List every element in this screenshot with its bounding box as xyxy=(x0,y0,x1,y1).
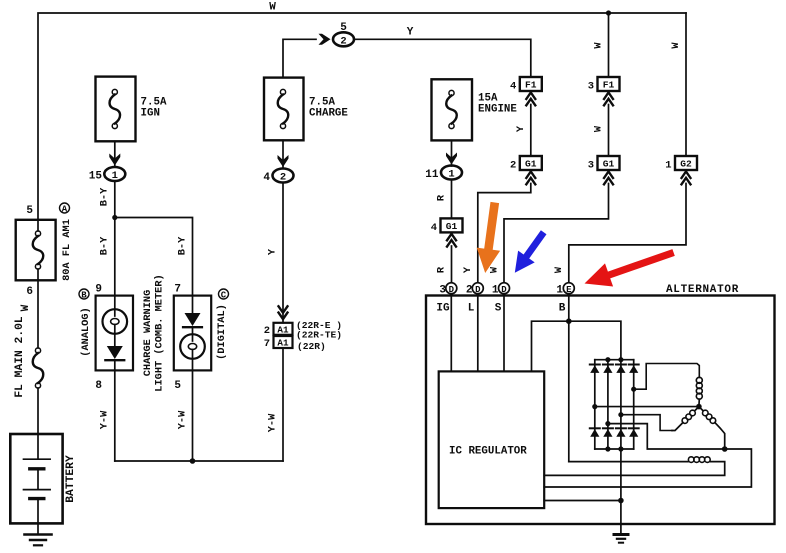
battery cell plates xyxy=(24,458,51,460)
connector oval 1 pin 11 xyxy=(441,166,462,180)
wire neutral rail to column 1 xyxy=(595,406,699,408)
svg-text:4: 4 xyxy=(510,81,516,93)
wire field coil to regulator F xyxy=(544,462,725,476)
connector chevrons F1-3 xyxy=(604,93,613,106)
svg-text:Y: Y xyxy=(462,266,474,273)
ground battery xyxy=(25,533,52,536)
wire phase 1 to coil xyxy=(634,364,700,390)
svg-text:W: W xyxy=(593,125,605,132)
IC regulator box xyxy=(439,371,545,508)
svg-text:(DIGITAL): (DIGITAL) xyxy=(216,304,228,360)
wire regulator ground xyxy=(544,500,621,502)
diode D1 bottom xyxy=(590,427,600,429)
svg-text:4: 4 xyxy=(263,172,270,184)
diode D4 bottom xyxy=(629,427,639,429)
junction connector F1 pin 4 xyxy=(520,77,542,91)
svg-text:2: 2 xyxy=(510,160,516,172)
svg-text:8: 8 xyxy=(95,380,102,392)
wire S into regulator xyxy=(503,294,505,372)
connector chevrons G1-4 xyxy=(447,234,456,247)
F1 G1 COLUMN S xyxy=(488,13,619,283)
svg-text:CHARGE WARNING: CHARGE WARNING xyxy=(142,290,154,377)
svg-text:(22R-TE): (22R-TE) xyxy=(296,330,342,341)
svg-text:B-Y: B-Y xyxy=(99,236,111,255)
connector arrow male xyxy=(109,154,120,166)
STATOR WINDINGS xyxy=(544,364,751,488)
CHARGE FUSE COLUMN xyxy=(263,22,530,461)
svg-text:Y-W: Y-W xyxy=(177,410,189,429)
wire B down to field coil xyxy=(568,294,570,462)
diode D3 bottom xyxy=(616,427,626,429)
pointer arrow orange xyxy=(477,202,500,273)
svg-text:1: 1 xyxy=(665,160,671,172)
svg-text:R: R xyxy=(436,194,448,201)
connector oval 2 pin 4 xyxy=(273,169,294,183)
svg-text:W: W xyxy=(269,2,276,14)
svg-text:W: W xyxy=(670,42,682,49)
ALTERNATOR UNIT xyxy=(426,284,775,524)
svg-text:IG: IG xyxy=(436,303,450,315)
svg-text:Y: Y xyxy=(267,248,279,255)
fuse 7.5A IGN box xyxy=(96,77,136,142)
svg-text:F1: F1 xyxy=(603,80,615,91)
node ground junction xyxy=(618,498,624,504)
svg-text:W: W xyxy=(593,42,605,49)
wire phase sense from column 2 xyxy=(544,424,751,487)
wire Y to F1 column xyxy=(354,39,531,77)
wire L into regulator xyxy=(477,294,479,372)
wire top bus to G2 xyxy=(685,13,687,156)
svg-text:L: L xyxy=(468,303,475,315)
svg-text:W: W xyxy=(553,266,565,273)
svg-text:ENGINE: ENGINE xyxy=(478,104,517,116)
node rail junction xyxy=(190,458,196,464)
junction connector F1 pin 3 xyxy=(598,77,620,91)
connector chevrons G1-3 xyxy=(604,172,613,185)
lamp analog xyxy=(114,296,116,316)
svg-text:G1: G1 xyxy=(446,221,458,232)
diode analog xyxy=(107,346,123,359)
junction connector A1 pin 2 xyxy=(274,323,293,335)
wire jog to terminal L xyxy=(478,184,531,283)
CHARGE WARNING LIGHT xyxy=(79,274,283,464)
RECTIFIER BRIDGE xyxy=(590,357,639,452)
fuse 15A ENGINE element xyxy=(449,90,454,95)
svg-text:5: 5 xyxy=(174,380,181,392)
svg-text:15: 15 xyxy=(89,171,103,183)
wire bridge negative to ground xyxy=(620,449,622,535)
junction connector A1 pin 7 xyxy=(274,336,293,348)
wire top bus to F1-3 xyxy=(608,13,610,77)
fuse 80A FL AM1 box xyxy=(16,220,56,280)
fuse 7.5A IGN element xyxy=(112,89,117,94)
svg-text:C: C xyxy=(221,290,227,300)
fuse 15A ENGINE box xyxy=(432,79,473,140)
svg-text:W: W xyxy=(488,266,500,273)
svg-text:11: 11 xyxy=(425,169,439,181)
wire Y to A1 junction xyxy=(282,183,284,323)
wire bridge column 3 xyxy=(620,360,622,449)
diode D2 bottom xyxy=(603,427,613,429)
svg-text:G1: G1 xyxy=(525,159,537,170)
fuse 7.5A CHARGE element xyxy=(280,89,285,94)
svg-text:7: 7 xyxy=(264,338,270,350)
connector chevrons female A1 xyxy=(279,306,288,319)
wire B to field coil xyxy=(569,461,688,463)
svg-text:3: 3 xyxy=(588,160,594,172)
F1 G1 COLUMN L xyxy=(462,77,542,283)
node top junction xyxy=(606,10,611,15)
G2 COLUMN B xyxy=(553,13,697,283)
svg-text:A: A xyxy=(62,204,68,214)
diode digital xyxy=(192,296,194,313)
pointer arrow blue xyxy=(515,230,547,273)
wire jog to terminal B xyxy=(569,184,686,283)
coil rotor field xyxy=(688,457,694,463)
svg-text:G1: G1 xyxy=(603,159,615,170)
svg-text:7: 7 xyxy=(174,284,181,296)
battery box xyxy=(10,434,62,523)
junction connector G2 pin 1 xyxy=(675,156,697,170)
wire charge fuse to connector xyxy=(282,140,284,168)
connector chevrons G1-2 xyxy=(526,172,535,185)
coil stator phase 2 xyxy=(695,407,699,411)
wire fuse A to FL MAIN xyxy=(37,269,39,348)
FIELD COIL AND GROUND xyxy=(544,449,725,543)
wire W top horizontal bus xyxy=(38,13,686,231)
wire IG into regulator xyxy=(450,294,452,372)
svg-text:(ANALOG): (ANALOG) xyxy=(80,307,92,356)
node C circle xyxy=(219,289,229,299)
connector arrow male xyxy=(278,155,289,167)
wire charge fuse top to oval 2 xyxy=(283,39,316,77)
svg-text:3: 3 xyxy=(588,81,594,93)
fusible link FL MAIN 2.0L element xyxy=(35,348,40,353)
coil stator phase 1 xyxy=(696,377,702,383)
wire jog to terminal S xyxy=(504,184,609,283)
wire FL MAIN to battery xyxy=(37,388,39,459)
wire branch to digital lamp xyxy=(115,218,193,296)
svg-text:Y-W: Y-W xyxy=(99,410,111,429)
svg-text:B: B xyxy=(81,290,87,300)
svg-text:G2: G2 xyxy=(680,159,692,170)
coil stator phase 3 xyxy=(699,407,703,411)
svg-text:CHARGE: CHARGE xyxy=(309,108,348,120)
wire Y between F1 and G1 xyxy=(530,105,532,157)
svg-text:9: 9 xyxy=(95,284,102,296)
wire digital lamp down xyxy=(192,370,194,461)
svg-text:B: B xyxy=(559,303,566,315)
wire IGN fuse to connector xyxy=(114,141,116,167)
svg-text:F1: F1 xyxy=(525,80,537,91)
wire bridge column 1 xyxy=(594,360,596,449)
LEFT BATTERY FEED COLUMN xyxy=(10,2,276,546)
svg-text:A1: A1 xyxy=(277,338,289,349)
svg-text:80A FL AM1: 80A FL AM1 xyxy=(61,219,73,281)
node A circle xyxy=(60,203,70,213)
diode D4 top xyxy=(629,364,639,366)
svg-text:5: 5 xyxy=(26,205,33,217)
svg-text:IC REGULATOR: IC REGULATOR xyxy=(449,446,527,458)
wire R to terminal IG xyxy=(451,246,453,283)
connector oval 2 pin 5 xyxy=(333,32,354,46)
wire regulator B sense to rectifier xyxy=(532,321,621,371)
ENGINE FUSE COLUMN xyxy=(425,79,517,282)
wire bridge negative rail xyxy=(595,448,634,450)
svg-text:FL MAIN 2.0L: FL MAIN 2.0L xyxy=(14,316,26,398)
svg-text:B-Y: B-Y xyxy=(99,187,111,206)
wire bridge column 4 xyxy=(633,360,635,449)
IGN FUSE COLUMN xyxy=(89,77,193,296)
svg-text:Y-W: Y-W xyxy=(267,413,279,432)
svg-text:A1: A1 xyxy=(277,324,289,335)
connector arrow male xyxy=(446,153,457,165)
svg-text:W: W xyxy=(20,304,32,311)
junction connector G1 pin 2 xyxy=(520,156,542,170)
connector chevrons F1-4 xyxy=(526,93,535,106)
svg-text:IGN: IGN xyxy=(141,108,160,120)
fuse 80A FL AM1 element xyxy=(35,231,40,236)
junction connector G1 pin 4 xyxy=(441,218,463,232)
svg-text:B-Y: B-Y xyxy=(177,236,189,255)
wire B-Y to warning lamps xyxy=(114,181,116,296)
lamp digital xyxy=(192,327,194,341)
wire engine fuse to connector xyxy=(451,140,453,166)
digital lamp box xyxy=(174,296,211,371)
wire bottom rail lamps xyxy=(115,460,283,462)
diode D3 top xyxy=(616,364,626,366)
ALTERNATOR TERMINALS xyxy=(439,283,574,297)
svg-text:LIGHT (COMB. METER): LIGHT (COMB. METER) xyxy=(154,274,166,391)
svg-text:R: R xyxy=(436,266,448,273)
analog lamp box xyxy=(96,296,133,371)
pointer arrow red xyxy=(585,249,675,286)
svg-text:(22R): (22R) xyxy=(297,341,326,352)
wire R to G1 xyxy=(451,180,453,219)
POINTER ARROWS xyxy=(477,202,675,287)
node phase 3 bottom xyxy=(722,446,728,452)
svg-text:BATTERY: BATTERY xyxy=(65,455,77,503)
svg-text:ALTERNATOR: ALTERNATOR xyxy=(666,284,739,296)
node phase tap column 4 xyxy=(631,387,636,392)
svg-text:4: 4 xyxy=(431,222,437,234)
svg-text:2: 2 xyxy=(264,325,270,337)
svg-text:Y: Y xyxy=(407,27,414,39)
diode D2 top xyxy=(603,364,613,366)
wire W between F1 and G1 xyxy=(608,105,610,157)
svg-text:2: 2 xyxy=(340,35,346,47)
diode D1 top xyxy=(590,364,600,366)
svg-text:S: S xyxy=(495,303,502,315)
node stator neutral xyxy=(696,404,702,410)
wire bridge column 2 xyxy=(607,360,609,449)
connector chevrons G2-1 xyxy=(682,172,691,185)
wire battery to ground xyxy=(37,499,39,535)
ground alternator xyxy=(614,533,628,536)
connector arrow male right xyxy=(319,34,331,45)
wire phase 2 to column 3 xyxy=(621,415,672,431)
fuse 7.5A CHARGE box xyxy=(264,78,304,141)
node B circle xyxy=(79,289,89,299)
node B-Y branch xyxy=(112,215,117,220)
node B junction xyxy=(566,318,572,324)
svg-text:6: 6 xyxy=(26,286,33,298)
junction connector G1 pin 3 xyxy=(598,156,620,170)
wire bridge positive rail xyxy=(595,359,634,361)
connector oval 1 pin 15 xyxy=(104,167,125,181)
svg-text:Y: Y xyxy=(515,125,527,132)
wire analog lamp down xyxy=(114,370,116,461)
wire Y-W down from A1 xyxy=(282,348,284,461)
alternator box xyxy=(426,296,775,525)
